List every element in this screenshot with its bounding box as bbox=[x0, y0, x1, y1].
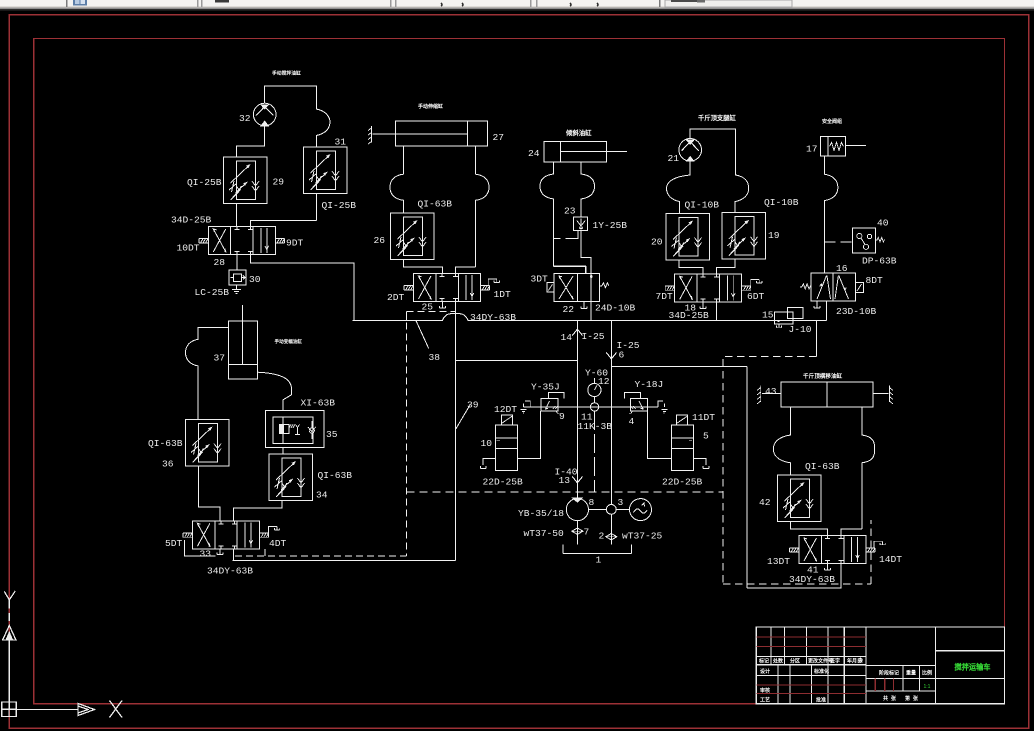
valve 33 bottom-right to tank bus bbox=[232, 549, 234, 561]
pressure bus with hump over riser bbox=[353, 314, 827, 321]
wire 19 to valve 18 right stub bbox=[717, 260, 735, 274]
actuator chinese captions bbox=[272, 70, 843, 381]
wire right neck to valve 25 right stub bbox=[455, 267, 475, 274]
throttle valve 20 QI-10B bbox=[666, 214, 710, 261]
pilot reducing valve 4 Y-18J bbox=[624, 393, 647, 414]
oil tank 1 bbox=[563, 545, 631, 554]
svg-text:34D-25B: 34D-25B bbox=[171, 215, 212, 226]
svg-text:30: 30 bbox=[249, 274, 261, 285]
throttle valve 34 QI-63B bbox=[269, 454, 313, 501]
valve 16 bottom port to bus bbox=[826, 301, 828, 320]
wire 23 bottom jog bbox=[554, 230, 578, 238]
anchor mount right of 43 bbox=[889, 386, 893, 404]
svg-text:工艺: 工艺 bbox=[760, 697, 770, 704]
svg-text:审核: 审核 bbox=[760, 687, 770, 694]
svg-text:2DT: 2DT bbox=[387, 292, 405, 303]
svg-text:3: 3 bbox=[618, 497, 624, 508]
wire right neck to valve 41 right stub bbox=[841, 529, 862, 536]
wire cylinder 37 right port to valve 35 bbox=[258, 372, 292, 410]
valve 18 bottom-left drain bbox=[700, 302, 706, 309]
svg-text:10: 10 bbox=[481, 438, 493, 449]
svg-text:LC-25B: LC-25B bbox=[195, 287, 230, 298]
valve 33 right solenoid drain jog bbox=[269, 527, 280, 534]
valve 5 right drain bbox=[694, 459, 709, 469]
svg-text:DP-63B: DP-63B bbox=[862, 256, 897, 267]
svg-text:34DY-63B: 34DY-63B bbox=[470, 312, 516, 323]
valve 25 bottom-right long riser to tank bus bbox=[455, 301, 457, 560]
svg-text:9DT: 9DT bbox=[286, 238, 304, 249]
directional valve 41 34DY-63B bbox=[790, 536, 876, 564]
relief valve 17 bbox=[821, 137, 866, 157]
directional valve 18 34D-25B bbox=[665, 274, 751, 302]
svg-text:8: 8 bbox=[589, 497, 595, 508]
svg-text:24: 24 bbox=[528, 148, 540, 159]
left grid verticals upper two rows bbox=[771, 627, 866, 704]
svg-text:QI-63B: QI-63B bbox=[805, 461, 840, 472]
gauge 32 bbox=[253, 103, 276, 126]
cylinder body bell under 21 bbox=[667, 161, 691, 213]
valve 18 right solenoid drain jog bbox=[751, 280, 762, 287]
pilot dashed line upper bbox=[407, 310, 456, 312]
svg-text:37: 37 bbox=[214, 353, 226, 364]
flow arrow 6 I-25 bbox=[606, 320, 616, 504]
svg-text:1:1: 1:1 bbox=[924, 684, 931, 690]
svg-text:4: 4 bbox=[629, 416, 635, 427]
solenoid valve 10 22D-25B bbox=[495, 415, 517, 471]
svg-text:wT37-50: wT37-50 bbox=[524, 528, 565, 539]
svg-text:比例: 比例 bbox=[922, 670, 932, 677]
cylinder 37 (vertical) bbox=[228, 305, 257, 379]
wire 20 to valve 18 left stub bbox=[679, 261, 703, 274]
svg-text:签字: 签字 bbox=[829, 658, 840, 665]
dashed pilot line to 40 bbox=[824, 241, 852, 243]
tank return bus bbox=[233, 559, 456, 561]
svg-text:第 张: 第 张 bbox=[905, 695, 919, 702]
directional valve 22 24D-10B bbox=[547, 267, 609, 302]
svg-text:重量: 重量 bbox=[906, 670, 916, 677]
reducing valve bus bbox=[524, 406, 658, 408]
right section bbox=[935, 627, 1004, 704]
svg-text:阶段标记: 阶段标记 bbox=[879, 670, 899, 677]
svg-text:43: 43 bbox=[765, 386, 777, 397]
svg-text:11K-3B: 11K-3B bbox=[578, 421, 613, 432]
svg-text:7: 7 bbox=[584, 527, 590, 538]
svg-text:40: 40 bbox=[877, 218, 889, 229]
wire 29 to valve 28 bbox=[236, 204, 238, 227]
pilot reducing valve 9 Y-35J bbox=[541, 393, 564, 414]
station boundary dashed line bbox=[407, 491, 724, 493]
valve 41 bottom-left drain bbox=[825, 564, 831, 570]
throttle valve 29 QI-25B bbox=[224, 157, 268, 204]
svg-text:9: 9 bbox=[559, 411, 565, 422]
svg-text:Y-18J: Y-18J bbox=[635, 379, 664, 390]
svg-text:1DT: 1DT bbox=[494, 289, 512, 300]
svg-text:34: 34 bbox=[316, 490, 328, 501]
left bus drain bbox=[521, 401, 531, 413]
middle section bbox=[866, 666, 936, 691]
svg-text:42: 42 bbox=[759, 497, 771, 508]
directional valve 25 34DY-63B bbox=[404, 273, 490, 301]
sequence valve 15 J-10 bbox=[775, 308, 803, 328]
svg-text:会: 会 bbox=[857, 657, 863, 664]
svg-text:手动伸缩缸: 手动伸缩缸 bbox=[418, 103, 443, 110]
leader line 39 bbox=[456, 405, 470, 429]
svg-text:34DY-63B: 34DY-63B bbox=[207, 566, 253, 577]
svg-text:Y-35J: Y-35J bbox=[531, 382, 560, 393]
svg-text:23: 23 bbox=[564, 206, 576, 217]
directional valve 33 34DY-63B bbox=[183, 521, 269, 549]
svg-text:5: 5 bbox=[703, 431, 709, 442]
svg-text:标记: 标记 bbox=[758, 658, 769, 665]
throttle valve 36 QI-63B bbox=[186, 420, 230, 467]
pilot pressure bus right bbox=[611, 366, 747, 368]
svg-text:12DT: 12DT bbox=[494, 404, 517, 415]
svg-text:6DT: 6DT bbox=[747, 291, 765, 302]
svg-text:22D-25B: 22D-25B bbox=[662, 477, 703, 488]
svg-text:24D-10B: 24D-10B bbox=[595, 303, 636, 314]
lower rows verticals bbox=[778, 665, 844, 704]
filter 2 wT37-25 bbox=[606, 514, 617, 544]
svg-text:31: 31 bbox=[335, 137, 347, 148]
svg-text:26: 26 bbox=[374, 235, 386, 246]
svg-text:34D-25B: 34D-25B bbox=[669, 310, 710, 321]
bottom link under valve 41 bbox=[747, 564, 841, 588]
anchor mount left of 43 bbox=[757, 386, 761, 404]
svg-text:23D-10B: 23D-10B bbox=[836, 306, 877, 317]
svg-text:32: 32 bbox=[239, 113, 251, 124]
throttle valve 19 QI-10B bbox=[722, 213, 766, 260]
wire valve 9 to valve 10 port bbox=[518, 411, 541, 459]
valve 41 right solenoid drain jog bbox=[874, 541, 885, 548]
electric motor bbox=[630, 499, 652, 521]
svg-text:8DT: 8DT bbox=[866, 275, 884, 286]
cylinder 27 (telescopic, rod left) bbox=[372, 121, 487, 146]
svg-text:倾斜油缸: 倾斜油缸 bbox=[565, 128, 592, 137]
svg-text:共 张: 共 张 bbox=[883, 695, 897, 702]
svg-text:12: 12 bbox=[598, 376, 610, 387]
svg-text:分区: 分区 bbox=[790, 658, 800, 665]
wire top bus 32-31 bbox=[265, 86, 317, 109]
svg-text:设计: 设计 bbox=[760, 668, 770, 675]
riser from bus to dashed station box bbox=[815, 320, 817, 356]
pilot dashed line to tank area bbox=[235, 555, 407, 557]
svg-text:34DY-63B: 34DY-63B bbox=[789, 574, 835, 585]
cylinder 24 (rod right) bbox=[544, 141, 627, 162]
gauge 21 bbox=[679, 139, 702, 162]
svg-text:7DT: 7DT bbox=[656, 291, 674, 302]
wire top jack-cylinder line bbox=[690, 129, 735, 172]
svg-text:2: 2 bbox=[599, 531, 605, 542]
svg-text:QI-63B: QI-63B bbox=[318, 470, 353, 481]
svg-text:搅拌运输车: 搅拌运输车 bbox=[955, 662, 991, 671]
svg-text:35: 35 bbox=[326, 429, 338, 440]
svg-text:千斤顶支腿缸: 千斤顶支腿缸 bbox=[698, 113, 736, 122]
pressure gauge 12 Y-60 bbox=[588, 378, 601, 403]
valve 10 left drain bbox=[480, 459, 495, 469]
svg-text:手动搅拌油缸: 手动搅拌油缸 bbox=[272, 70, 301, 77]
UCS icon (X/Y axes, bottom-left) bbox=[2, 591, 122, 718]
svg-text:5DT: 5DT bbox=[165, 538, 183, 549]
flow arrow 14 I-25 bbox=[572, 320, 582, 498]
svg-text:QI-10B: QI-10B bbox=[685, 200, 720, 211]
cylinder body bell under 43 bbox=[773, 407, 790, 475]
svg-text:安全阀组: 安全阀组 bbox=[822, 118, 842, 125]
svg-text:13DT: 13DT bbox=[767, 556, 790, 567]
cylinder body bell under 27 bbox=[390, 146, 404, 213]
cylinder 43 (dual rod) bbox=[762, 382, 889, 407]
valve 25 right solenoid drain jog bbox=[488, 279, 499, 286]
dashed station boundary box (jack unit) bbox=[723, 356, 871, 584]
svg-text:15: 15 bbox=[762, 310, 774, 321]
svg-text:29: 29 bbox=[273, 177, 285, 188]
svg-text:14: 14 bbox=[561, 332, 573, 343]
junction circle 11 11K-3B bbox=[590, 403, 598, 411]
svg-text:21: 21 bbox=[668, 153, 680, 164]
wire hump into valve 31 riser bbox=[316, 109, 330, 147]
toolbar strip (partial, top of window) bbox=[0, 0, 1034, 11]
svg-text:YB-35/18: YB-35/18 bbox=[518, 508, 564, 519]
directional valve 28 34D-25B bbox=[199, 226, 284, 254]
wire 32 bottom to 29 top bbox=[237, 126, 265, 157]
svg-text:28: 28 bbox=[214, 257, 226, 268]
wire 23 through-line to valve 22 and bus bbox=[581, 230, 591, 320]
svg-text:4DT: 4DT bbox=[269, 538, 287, 549]
solid link bus to dashed vertical bbox=[406, 311, 408, 320]
svg-text:25: 25 bbox=[422, 302, 434, 313]
cylinder body bell under 24 bbox=[540, 162, 586, 274]
neck with bump under 17 bbox=[824, 156, 838, 273]
svg-text:22: 22 bbox=[563, 304, 575, 315]
wire 28 bottom-right to pressure bus bbox=[251, 254, 354, 320]
svg-text:17: 17 bbox=[806, 144, 818, 155]
check valve 30 LC-25B bbox=[229, 270, 246, 285]
component reference labels bbox=[148, 113, 902, 585]
svg-text:20: 20 bbox=[651, 237, 663, 248]
valve 33 left solenoid drain bbox=[185, 540, 216, 556]
throttle valve 31 QI-25B bbox=[304, 147, 348, 194]
svg-text:36: 36 bbox=[162, 459, 174, 470]
wire 36 to valve 33 left stub bbox=[199, 466, 220, 521]
svg-text:11DT: 11DT bbox=[692, 412, 715, 423]
pilot dashed vertical bbox=[406, 311, 408, 556]
svg-text:33: 33 bbox=[200, 549, 212, 560]
throttle valve 42 QI-63B bbox=[778, 475, 822, 522]
throttle valve 26 QI-63B bbox=[391, 213, 435, 260]
solenoid valve 5 22D-25B bbox=[671, 415, 693, 471]
svg-text:19: 19 bbox=[768, 230, 780, 241]
svg-text:XI-63B: XI-63B bbox=[301, 398, 336, 409]
valve 33 bottom-left drain bbox=[217, 549, 223, 555]
wire pump to junction to motor bbox=[589, 509, 630, 511]
svg-text:处数: 处数 bbox=[772, 658, 784, 665]
svg-text:QI-10B: QI-10B bbox=[764, 197, 799, 208]
svg-text:千斤顶横移油缸: 千斤顶横移油缸 bbox=[803, 372, 843, 380]
directional valve 16 23D-10B bbox=[800, 273, 864, 301]
svg-text:QI-25B: QI-25B bbox=[187, 177, 222, 188]
svg-text:QI-63B: QI-63B bbox=[418, 199, 453, 210]
ground under 30 bbox=[232, 285, 241, 293]
svg-text:38: 38 bbox=[429, 352, 441, 363]
anchor mount left of cylinder 27 bbox=[368, 126, 372, 144]
pressure switch 40 DP-63B bbox=[853, 228, 885, 253]
svg-text:22D-25B: 22D-25B bbox=[483, 477, 524, 488]
wire 35 to 34 bbox=[282, 448, 284, 454]
svg-text:QI-25B: QI-25B bbox=[322, 200, 357, 211]
valve 22 bottom drain bbox=[581, 301, 587, 308]
svg-text:wT37-25: wT37-25 bbox=[622, 531, 663, 542]
dashed pilot line from 11 to boundary bbox=[593, 411, 595, 492]
svg-text:27: 27 bbox=[493, 132, 505, 143]
valve 33 right section drain line bbox=[264, 549, 266, 556]
svg-text:1Y-25B: 1Y-25B bbox=[593, 220, 628, 231]
wire 26 to valve 25 left stub bbox=[404, 260, 443, 274]
valve 18 bottom-right to bus bbox=[716, 302, 718, 320]
svg-text:16: 16 bbox=[836, 263, 848, 274]
svg-text:1: 1 bbox=[596, 555, 602, 566]
svg-text:3DT: 3DT bbox=[531, 274, 549, 285]
check valve 23 1Y-25B bbox=[574, 217, 588, 230]
svg-text:J-10: J-10 bbox=[789, 324, 812, 335]
svg-text:14DT: 14DT bbox=[879, 554, 902, 565]
wire valve 4 to valve 5 port bbox=[648, 411, 672, 459]
svg-text:13: 13 bbox=[559, 475, 571, 486]
pilot riser right bbox=[746, 367, 748, 589]
pilot operated valve 35 XI-63B bbox=[265, 411, 323, 448]
svg-text:QI-63B: QI-63B bbox=[148, 438, 183, 449]
wire 34 to valve 33 right stub bbox=[233, 501, 282, 521]
right bus drain bbox=[658, 401, 668, 413]
svg-text:手动变幅油缸: 手动变幅油缸 bbox=[275, 338, 303, 345]
svg-text:6: 6 bbox=[619, 350, 625, 361]
wire 31 to valve 28 top-right bbox=[251, 194, 317, 227]
valve 25 bottom-left drain bbox=[439, 301, 445, 308]
mount bump left of cylinder 37 bbox=[186, 327, 229, 419]
wire 28 bottom-left to check valve 30 bbox=[236, 254, 238, 270]
pilot pressure bus left bbox=[456, 359, 578, 361]
wire 42 to valve 41 left stub bbox=[791, 522, 828, 536]
svg-text:批准: 批准 bbox=[816, 697, 826, 704]
hydraulic pump 8 YB-35/18 bbox=[566, 498, 588, 521]
filter 7 wT37-50 bbox=[572, 521, 583, 545]
svg-text:10DT: 10DT bbox=[177, 243, 200, 254]
junction circle 3 bbox=[606, 505, 616, 515]
valve 16 bottom drain bbox=[814, 301, 820, 308]
svg-text:I-25: I-25 bbox=[582, 331, 605, 342]
leader line 38 bbox=[416, 321, 429, 349]
flow arrow 13 I-40 bbox=[572, 477, 582, 483]
svg-text:39: 39 bbox=[467, 400, 479, 411]
svg-text:标准化: 标准化 bbox=[813, 668, 829, 675]
title block (bottom right) bbox=[756, 627, 1004, 704]
